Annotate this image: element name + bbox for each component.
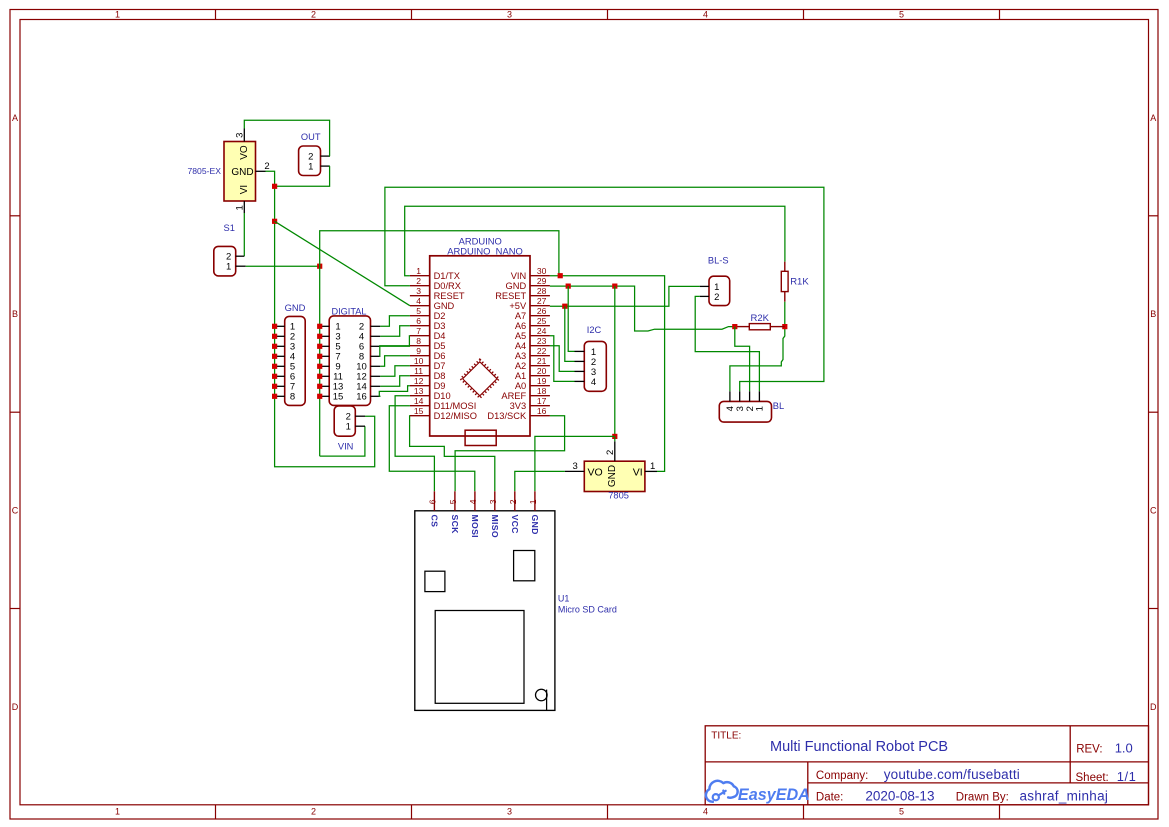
junction S1.1 on VIN rail bbox=[317, 264, 322, 269]
svg-text:VI: VI bbox=[239, 185, 250, 194]
svg-text:Sheet:: Sheet: bbox=[1076, 772, 1109, 784]
svg-text:DIGITAL: DIGITAL bbox=[331, 307, 366, 317]
junction on GND rail at diagonal branch bbox=[272, 219, 277, 224]
svg-text:3: 3 bbox=[507, 9, 512, 19]
wire 7805 GND junction to SD GND bbox=[535, 436, 615, 491]
svg-text:GND: GND bbox=[231, 167, 253, 178]
svg-text:2: 2 bbox=[311, 807, 316, 817]
svg-text:3: 3 bbox=[488, 499, 498, 504]
junction R2K left node bbox=[732, 324, 737, 329]
pin 1 of 7805 bbox=[645, 461, 657, 472]
junction R1K/R2K node bbox=[782, 324, 787, 329]
svg-text:24: 24 bbox=[537, 326, 547, 336]
svg-text:3V3: 3V3 bbox=[510, 401, 527, 411]
svg-text:2: 2 bbox=[508, 499, 518, 504]
svg-text:13: 13 bbox=[414, 386, 424, 396]
connector VIN bbox=[334, 406, 365, 452]
svg-text:AREF: AREF bbox=[501, 391, 526, 401]
junction +5V branch I2C.2 bbox=[562, 304, 567, 309]
wire R1K bottom to BL.4 bbox=[730, 302, 785, 392]
wire S1.1 to VIN rail bbox=[246, 265, 320, 267]
svg-text:1: 1 bbox=[115, 807, 120, 817]
svg-text:20: 20 bbox=[537, 366, 547, 376]
svg-text:22: 22 bbox=[537, 346, 547, 356]
svg-text:VIN: VIN bbox=[511, 271, 527, 281]
svg-text:5: 5 bbox=[899, 9, 904, 19]
svg-text:B: B bbox=[12, 309, 18, 319]
svg-text:4: 4 bbox=[416, 296, 421, 306]
svg-text:+5V: +5V bbox=[509, 301, 527, 311]
junctions header DIGITAL odd pins on VIN rail bbox=[317, 324, 322, 329]
svg-text:5: 5 bbox=[416, 306, 421, 316]
svg-text:D0/RX: D0/RX bbox=[434, 281, 461, 291]
svg-text:D9: D9 bbox=[434, 381, 446, 391]
pin 1 of 7805-EX bbox=[234, 201, 245, 213]
svg-text:1: 1 bbox=[115, 9, 120, 19]
svg-text:1.0: 1.0 bbox=[1115, 740, 1133, 755]
wire OUT.2 to 7805-EX.3 bbox=[244, 120, 330, 156]
svg-text:R1K: R1K bbox=[790, 277, 809, 288]
svg-text:4: 4 bbox=[703, 807, 708, 817]
svg-text:7805-EX: 7805-EX bbox=[188, 166, 222, 176]
wire OUT.1 to GND rail bbox=[275, 166, 330, 186]
svg-text:D5: D5 bbox=[434, 341, 446, 351]
wire +5V branch to I2C.2 bbox=[565, 306, 575, 361]
svg-text:Multi Functional Robot PCB: Multi Functional Robot PCB bbox=[770, 739, 948, 755]
wire A4 to I2C.3 bbox=[550, 346, 575, 372]
svg-text:25: 25 bbox=[537, 316, 547, 326]
svg-text:D2: D2 bbox=[434, 311, 446, 321]
svg-text:GND: GND bbox=[506, 281, 527, 291]
junction 7805 GND node bbox=[612, 434, 617, 439]
pin 3 of 7805-EX bbox=[234, 129, 245, 142]
svg-text:11: 11 bbox=[414, 366, 423, 376]
svg-text:VCC: VCC bbox=[510, 515, 520, 535]
svg-text:4: 4 bbox=[468, 499, 478, 504]
wire 7805 GND junction to pin2 bbox=[614, 436, 616, 441]
svg-text:1/1: 1/1 bbox=[1117, 769, 1137, 784]
svg-text:1: 1 bbox=[650, 461, 655, 472]
svg-text:BL: BL bbox=[773, 401, 784, 411]
svg-text:CS: CS bbox=[429, 515, 439, 528]
svg-text:VIN: VIN bbox=[338, 442, 354, 452]
wire GND29 branch down to 7805 GND junction bbox=[614, 286, 616, 436]
resistor R2K bbox=[735, 313, 785, 330]
svg-text:D6: D6 bbox=[434, 351, 446, 361]
svg-text:A4: A4 bbox=[515, 341, 526, 351]
svg-text:14: 14 bbox=[414, 396, 424, 406]
svg-text:ashraf_minhaj: ashraf_minhaj bbox=[1020, 788, 1109, 803]
resistor R1K bbox=[781, 262, 809, 302]
svg-text:VO: VO bbox=[239, 145, 250, 160]
svg-text:7: 7 bbox=[416, 326, 421, 336]
junction GND29 branch I2C.1 bbox=[566, 284, 571, 289]
svg-text:D11/MOSI: D11/MOSI bbox=[434, 401, 477, 411]
svg-text:Company:: Company: bbox=[816, 770, 868, 782]
svg-text:17: 17 bbox=[537, 396, 547, 406]
svg-text:8: 8 bbox=[290, 392, 295, 403]
svg-text:ARDUINO NANO: ARDUINO NANO bbox=[447, 245, 523, 256]
pin 2 of 7805-EX bbox=[256, 161, 270, 172]
module ARDUINO NANO bbox=[410, 236, 550, 436]
svg-text:D12/MISO: D12/MISO bbox=[434, 411, 477, 421]
svg-text:15: 15 bbox=[333, 392, 344, 403]
svg-text:4: 4 bbox=[591, 377, 596, 388]
svg-text:1: 1 bbox=[234, 205, 245, 210]
wire +5V to BL-S.1 bbox=[550, 286, 700, 306]
wire D11/MOSI to SD MOSI bbox=[389, 406, 475, 492]
header GND bbox=[275, 302, 306, 406]
MCU diamond inside ARDUINO bbox=[461, 360, 500, 399]
svg-text:15: 15 bbox=[414, 406, 424, 416]
svg-text:D4: D4 bbox=[434, 331, 446, 341]
svg-text:1: 1 bbox=[416, 266, 421, 276]
svg-text:18: 18 bbox=[537, 386, 547, 396]
connector BL bbox=[719, 391, 784, 422]
svg-text:D: D bbox=[1150, 702, 1157, 712]
wire DIGITAL.4 to D3 bbox=[380, 326, 410, 337]
svg-text:16: 16 bbox=[356, 392, 367, 403]
svg-text:A2: A2 bbox=[515, 361, 526, 371]
svg-text:3: 3 bbox=[234, 133, 245, 138]
wire D12/MISO to SD MISO bbox=[410, 416, 495, 492]
svg-text:C: C bbox=[12, 506, 19, 516]
svg-text:youtube.com/fusebatti: youtube.com/fusebatti bbox=[884, 767, 1020, 782]
svg-text:28: 28 bbox=[537, 286, 547, 296]
wire D1/TX to R1K top bbox=[405, 206, 785, 275]
svg-text:21: 21 bbox=[537, 356, 547, 366]
svg-text:2: 2 bbox=[416, 276, 421, 286]
svg-text:23: 23 bbox=[537, 336, 547, 346]
svg-text:EasyEDA: EasyEDA bbox=[738, 786, 810, 804]
wire DIGITAL.14 to D8 bbox=[380, 376, 410, 387]
wire D10 to SD CS bbox=[395, 396, 434, 492]
wire DIGITAL.16 to D9 bbox=[379, 386, 410, 397]
svg-text:1: 1 bbox=[528, 499, 538, 504]
header I2C bbox=[575, 325, 607, 391]
wire VIN rail to VIN connector pin1 bbox=[320, 426, 365, 456]
svg-text:16: 16 bbox=[537, 406, 547, 416]
wire BL-S.2 to BL.1 bbox=[695, 296, 759, 391]
module U1 Micro SD Card bbox=[415, 491, 617, 710]
wire 7805-EX.1 to S1.2 bbox=[243, 213, 245, 256]
connector BL-S bbox=[700, 256, 730, 306]
connector S1 bbox=[214, 223, 246, 276]
regulator 7805-EX bbox=[188, 142, 256, 202]
svg-text:GND: GND bbox=[530, 515, 540, 535]
svg-text:A0: A0 bbox=[515, 381, 526, 391]
svg-text:C: C bbox=[1150, 506, 1157, 516]
wire A5 to I2C.4 bbox=[550, 336, 575, 382]
svg-text:2: 2 bbox=[714, 292, 719, 303]
svg-text:VI: VI bbox=[633, 466, 643, 478]
wire GND rail vertical bbox=[266, 171, 375, 466]
wire GND29 branch to I2C.1 bbox=[568, 286, 574, 351]
junction GND29 branch 7805.GND bbox=[612, 284, 617, 289]
svg-text:MISO: MISO bbox=[490, 515, 500, 538]
svg-text:5: 5 bbox=[899, 807, 904, 817]
wire DIGITAL.8 to D5 bbox=[380, 346, 410, 357]
svg-text:6: 6 bbox=[428, 499, 438, 504]
junction on GND rail at OUT branch bbox=[272, 184, 277, 189]
svg-text:3: 3 bbox=[416, 286, 421, 296]
wire R2K left to BL.2 bbox=[735, 327, 750, 392]
svg-text:A7: A7 bbox=[515, 311, 526, 321]
wire D13/SCK to SD SCK bbox=[455, 416, 564, 492]
svg-text:1: 1 bbox=[308, 162, 313, 173]
svg-text:Date:: Date: bbox=[816, 791, 844, 803]
svg-text:VO: VO bbox=[588, 466, 603, 478]
svg-text:A3: A3 bbox=[515, 351, 526, 361]
svg-text:26: 26 bbox=[537, 306, 547, 316]
svg-text:3: 3 bbox=[507, 807, 512, 817]
svg-text:A5: A5 bbox=[515, 331, 526, 341]
svg-text:A: A bbox=[12, 113, 18, 123]
wire DIGITAL.12 to D7 bbox=[380, 366, 410, 377]
wire DIGITAL.2 to D2 bbox=[380, 316, 410, 327]
svg-text:2: 2 bbox=[264, 161, 269, 172]
wire GND29 to R2K left bbox=[550, 286, 735, 331]
svg-text:B: B bbox=[1150, 309, 1156, 319]
svg-text:D: D bbox=[12, 702, 19, 712]
title block bbox=[705, 726, 1148, 805]
svg-text:4: 4 bbox=[703, 9, 708, 19]
svg-text:D7: D7 bbox=[434, 361, 446, 371]
svg-text:I2C: I2C bbox=[587, 325, 602, 335]
svg-text:6: 6 bbox=[416, 316, 421, 326]
svg-text:Micro SD Card: Micro SD Card bbox=[558, 605, 617, 615]
svg-text:TITLE:: TITLE: bbox=[711, 731, 741, 742]
svg-text:9: 9 bbox=[416, 346, 421, 356]
svg-text:GND: GND bbox=[607, 465, 618, 487]
svg-text:8: 8 bbox=[416, 336, 421, 346]
svg-text:3: 3 bbox=[573, 461, 578, 472]
svg-text:7805: 7805 bbox=[608, 491, 629, 501]
svg-text:D3: D3 bbox=[434, 321, 446, 331]
regulator 7805 bbox=[584, 461, 645, 501]
header DIGITAL bbox=[320, 307, 381, 406]
wire D0/RX to BL.3 bbox=[385, 187, 824, 391]
junctions header GND pins on GND rail bbox=[272, 324, 277, 329]
svg-text:27: 27 bbox=[537, 296, 547, 306]
pin 2 of 7805 bbox=[605, 441, 616, 461]
USB pad rectangle of ARDUINO bbox=[465, 430, 496, 445]
svg-text:2: 2 bbox=[311, 9, 316, 19]
pin 3 of 7805 bbox=[565, 461, 584, 472]
svg-text:RESET: RESET bbox=[434, 291, 465, 301]
svg-text:1: 1 bbox=[755, 406, 766, 411]
svg-text:REV:: REV: bbox=[1076, 743, 1102, 755]
svg-text:U1: U1 bbox=[558, 594, 570, 604]
svg-text:A: A bbox=[1150, 113, 1156, 123]
wire DIGITAL.10 to D6 bbox=[380, 356, 410, 367]
svg-text:30: 30 bbox=[537, 266, 547, 276]
connector OUT bbox=[299, 132, 330, 176]
svg-text:D8: D8 bbox=[434, 371, 446, 381]
wire GND diagonal to ARDUINO GND pin 4 bbox=[275, 221, 410, 305]
svg-text:SCK: SCK bbox=[450, 515, 460, 535]
svg-text:A1: A1 bbox=[515, 371, 526, 381]
junction VIN pin30 bbox=[558, 273, 563, 278]
svg-text:10: 10 bbox=[414, 356, 424, 366]
svg-text:Drawn By:: Drawn By: bbox=[956, 791, 1009, 803]
svg-text:MOSI: MOSI bbox=[470, 515, 480, 538]
svg-text:RESET: RESET bbox=[495, 291, 526, 301]
wire DIGITAL.6 to D4 bbox=[380, 336, 410, 347]
svg-text:1: 1 bbox=[226, 262, 231, 273]
svg-text:D1/TX: D1/TX bbox=[434, 271, 460, 281]
svg-text:OUT: OUT bbox=[301, 132, 321, 142]
svg-text:A6: A6 bbox=[515, 321, 526, 331]
svg-text:5: 5 bbox=[448, 499, 458, 504]
wire VIN rail vertical bbox=[320, 231, 559, 456]
svg-text:1: 1 bbox=[346, 422, 351, 433]
svg-text:2020-08-13: 2020-08-13 bbox=[865, 788, 934, 803]
svg-text:R2K: R2K bbox=[751, 313, 770, 324]
svg-text:GND: GND bbox=[285, 302, 306, 313]
svg-text:GND: GND bbox=[434, 301, 455, 311]
wire VIN rail to ARDUINO pin30 and 7805.VI bbox=[550, 276, 665, 472]
wire 7805 VO to SD VCC bbox=[515, 471, 565, 491]
svg-text:S1: S1 bbox=[224, 223, 235, 233]
svg-text:19: 19 bbox=[537, 376, 547, 386]
svg-text:D10: D10 bbox=[434, 391, 451, 401]
svg-text:BL-S: BL-S bbox=[708, 256, 729, 266]
svg-text:12: 12 bbox=[414, 376, 424, 386]
EasyEDA logo bbox=[706, 781, 810, 804]
svg-text:D13/SCK: D13/SCK bbox=[487, 411, 527, 421]
svg-text:2: 2 bbox=[605, 450, 616, 455]
svg-text:29: 29 bbox=[537, 276, 547, 286]
